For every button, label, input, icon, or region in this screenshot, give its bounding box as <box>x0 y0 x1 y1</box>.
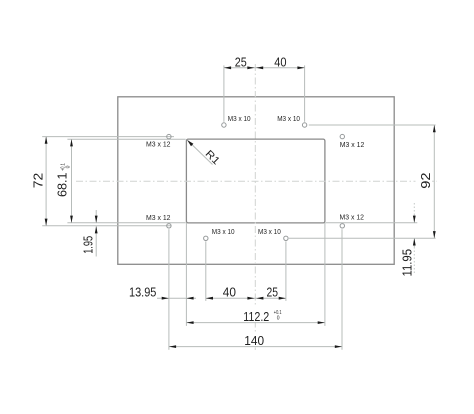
dimension line 92 <box>433 125 435 238</box>
svg-text:0: 0 <box>65 165 71 168</box>
arrow 92 top <box>433 125 436 132</box>
svg-text:M3 x 10: M3 x 10 <box>258 229 281 236</box>
extension line left cutout top edge <box>67 138 185 140</box>
dimension line 68.1 <box>71 139 73 223</box>
dim text 68.1 rotated <box>55 163 71 197</box>
arrow 140 right <box>335 345 342 348</box>
text mask 92 <box>416 171 433 191</box>
arrow 140 left <box>169 345 176 348</box>
svg-text:11.95: 11.95 <box>400 249 414 277</box>
arrow 72 bottom <box>45 219 48 226</box>
svg-text:112.2: 112.2 <box>243 310 269 324</box>
arrow 112.2 right <box>318 321 325 324</box>
extension line top hole left <box>223 65 225 121</box>
svg-text:25: 25 <box>267 285 279 299</box>
svg-text:40: 40 <box>223 285 236 299</box>
arrow 92 bottom <box>433 231 436 238</box>
dimension line 1.95 upper tail <box>95 210 97 223</box>
extension line left M3x12 bottom row <box>42 225 171 227</box>
dimension line 11.95 lower tail dotted part <box>413 247 415 275</box>
label R1 rotated <box>203 148 223 168</box>
arrow 40 left <box>256 66 263 69</box>
svg-text:M3 x 10: M3 x 10 <box>277 116 300 123</box>
arrow 40 right <box>297 66 304 69</box>
arrow 13.95 left outside <box>162 297 169 300</box>
hole M3x10 top-right <box>302 123 306 127</box>
dim text 72 rotated <box>32 173 46 189</box>
extension line bottom cutout left edge <box>185 223 187 326</box>
extension line left cutout bottom edge <box>67 222 185 224</box>
dimension line 13.95 bottom <box>157 297 196 299</box>
dimension line 25/40 top <box>224 67 305 69</box>
dimension line 11.95 upper tail <box>413 215 415 223</box>
arrow 68.1 bottom <box>70 216 73 223</box>
arrow 11.95 upper outside <box>413 216 416 223</box>
hole M3x10 bottom-right <box>284 236 288 240</box>
svg-text:M3 x 12: M3 x 12 <box>340 142 365 149</box>
extension line top hole right <box>304 65 306 121</box>
hole M3x12 bottom-right <box>340 224 344 228</box>
arrow 112.2 left <box>186 321 193 324</box>
text mask 140 <box>243 332 266 346</box>
arrow 40b left <box>206 297 213 300</box>
hole M3x12 top-left <box>167 134 171 138</box>
extension line bottom M3x10 left <box>205 241 207 301</box>
extension line bottom M3x12 left <box>168 229 170 350</box>
dimension line 72 <box>45 137 47 226</box>
dim text 1.95 rotated <box>81 236 95 254</box>
hole M3x10 bottom-left <box>204 236 208 240</box>
dim text 11.95 rotated <box>400 249 414 277</box>
text mask 112.2 <box>242 306 283 322</box>
arrow 25b right <box>279 297 286 300</box>
arrow 25b left <box>256 297 263 300</box>
hole M3x10 top-left <box>222 123 226 127</box>
svg-text:M3 x 12: M3 x 12 <box>146 141 171 148</box>
dimension line 112.2 <box>186 322 325 324</box>
svg-text:68.1: 68.1 <box>55 172 69 197</box>
extension line bottom M3x10 right <box>285 241 287 301</box>
arrow 68.1 top <box>70 139 73 146</box>
hole M3x12 bottom-left <box>167 224 171 228</box>
cutout rectangle R1 corners <box>186 139 325 223</box>
svg-text:13.95: 13.95 <box>129 285 156 299</box>
arrow 1.95 lower outside <box>95 226 98 233</box>
svg-text:72: 72 <box>32 173 46 189</box>
svg-text:M3 x 10: M3 x 10 <box>228 116 251 123</box>
hole M3x12 top-right <box>340 134 344 138</box>
dimension line 1.95 lower tail <box>95 226 97 256</box>
svg-text:M3 x 12: M3 x 12 <box>340 214 365 221</box>
arrow 13.95 right outside <box>186 297 193 300</box>
arrow 25 right <box>247 66 254 69</box>
arrow 40b right <box>247 297 254 300</box>
arrow 25 left <box>224 66 231 69</box>
svg-text:25: 25 <box>235 55 247 69</box>
extension line right cutout bottom edge <box>326 222 418 224</box>
dimension line 11.95 upper tail dotted part <box>413 203 415 215</box>
panel outline (outer rectangle) <box>118 97 394 264</box>
vertical centerline <box>254 64 256 350</box>
svg-text:M3 x 10: M3 x 10 <box>212 229 235 236</box>
extension line left M3x12 top row <box>42 136 174 138</box>
svg-text:M3 x 12: M3 x 12 <box>146 215 171 222</box>
horizontal centerline <box>76 180 437 182</box>
arrow 1.95 upper outside <box>95 216 98 223</box>
R1 leader line <box>187 140 212 164</box>
arrow 11.95 lower outside <box>413 238 416 245</box>
svg-text:40: 40 <box>274 55 286 69</box>
extension line right M3x10 bottom row <box>289 237 436 239</box>
extension line bottom cutout right edge <box>324 223 326 326</box>
dimension line 140 <box>169 346 342 348</box>
extension line right M3x10 top row <box>309 124 436 126</box>
svg-text:1.95: 1.95 <box>81 236 95 254</box>
extension line bottom M3x12 right <box>341 229 343 350</box>
svg-text:92: 92 <box>419 172 433 188</box>
dim text 92 rotated <box>419 172 433 188</box>
dimension line 40/25 bottom <box>206 297 286 299</box>
svg-text:140: 140 <box>244 334 264 348</box>
svg-text:0: 0 <box>277 315 280 321</box>
arrow 72 top <box>45 137 48 144</box>
dimension line 11.95 lower tail <box>413 238 415 247</box>
R1 leader arrowhead <box>187 140 193 146</box>
